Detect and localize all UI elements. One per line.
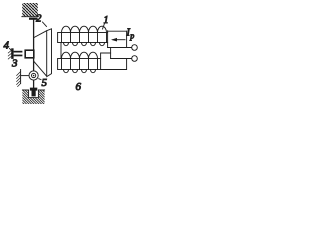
wire: horizontal to terminal T1 — [108, 47, 132, 49]
pivot pin — [21, 75, 29, 77]
wire: top coil upper-right horizontal — [108, 30, 127, 32]
contact post (hatched wall) — [8, 48, 13, 59]
coil 1 (top winding) — [58, 26, 108, 46]
pivot bearing inner circle — [31, 73, 35, 77]
svg-text:5: 5 — [42, 77, 48, 89]
pivot wall (hatched) — [17, 70, 21, 87]
suspension clamp bar — [29, 18, 38, 20]
wire: left interconnect between coils — [60, 43, 62, 59]
svg-text:p: p — [129, 32, 134, 41]
coil 6 (bottom winding) — [58, 52, 101, 73]
leader dash for label 5 — [39, 78, 41, 81]
fixed contact bar lower — [14, 55, 23, 57]
wire: lower return via bottom edge — [101, 59, 127, 70]
current arrow Ip — [111, 38, 125, 42]
pendulum rod (2) — [33, 20, 35, 89]
leader for label 4 — [10, 49, 13, 52]
armature plate — [47, 29, 52, 77]
wire: coil right edge drop — [107, 43, 109, 48]
terminal T1 — [132, 45, 138, 51]
svg-text:2: 2 — [36, 13, 42, 25]
terminal T2 — [132, 56, 138, 62]
wire: right vertical of loop — [126, 31, 128, 47]
upper strut rod-to-plate — [34, 31, 47, 38]
leader for label 2 — [43, 22, 47, 27]
wire: step link vertical — [110, 48, 112, 54]
svg-text:3: 3 — [11, 58, 18, 70]
wire: horizontal to terminal T2 — [111, 58, 132, 60]
fixed contact bar upper — [14, 51, 23, 53]
svg-text:4: 4 — [4, 40, 10, 52]
rod foot — [30, 88, 37, 97]
top support block (hatched) — [22, 3, 39, 17]
base block (hatched) with slot — [22, 90, 44, 104]
moving contact box on rod — [25, 50, 34, 58]
svg-text:6: 6 — [76, 81, 82, 93]
pivot bearing (5): outer circle — [29, 71, 38, 80]
lower strut rod-to-plate — [34, 62, 46, 76]
leader for label 1 — [103, 24, 105, 30]
pivot center dot — [33, 75, 35, 77]
wire: bottom coil step up — [101, 53, 111, 59]
